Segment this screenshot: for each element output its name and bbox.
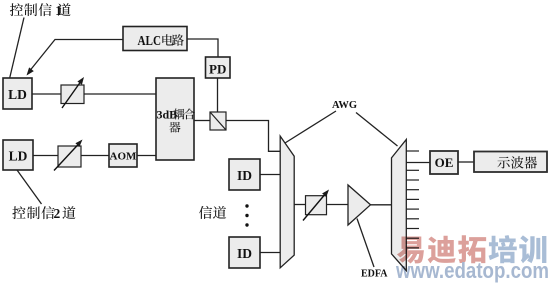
EDFA amplifier triangle <box>348 185 371 225</box>
variable attenuator VOA2 <box>54 140 83 171</box>
wire VOA1 to 3dB coupler <box>84 93 156 95</box>
photodiode PD <box>206 57 231 78</box>
label EDFA with leader <box>357 219 388 280</box>
label AWG with two leaders <box>285 100 398 146</box>
wire PD to tap splitter <box>217 78 219 112</box>
laser ID1 (channel bank top) <box>229 159 260 190</box>
svg-text:LD: LD <box>8 87 27 102</box>
svg-text:ID: ID <box>237 246 252 261</box>
wire VOA2 to AOM <box>81 155 109 157</box>
variable attenuator VOA1 <box>61 77 84 108</box>
wire AOM to 3dB coupler <box>137 155 156 157</box>
svg-text:ALC: ALC <box>138 33 162 48</box>
laser diode LD1 <box>3 78 32 109</box>
tap splitter (box with diagonal) <box>210 112 226 130</box>
label: channels (信道) <box>199 206 226 219</box>
wire OE to oscilloscope <box>458 161 474 163</box>
wire: ALC feedback to LD1 (arrow) <box>27 40 124 76</box>
laser ID2 (channel bank bottom) <box>229 237 260 268</box>
svg-text:PD: PD <box>209 62 226 77</box>
wire ID1 to AWG mux <box>260 174 280 176</box>
acousto-optic modulator AOM <box>109 144 137 167</box>
svg-text:www.edatop.com: www.edatop.com <box>395 258 549 283</box>
svg-text:OE: OE <box>435 155 454 170</box>
label: control channel 2 (控制信道2) <box>12 206 75 221</box>
wire EDFA to AWG demux <box>371 204 392 206</box>
3dB coupler box (3dB耦合器) <box>156 78 195 160</box>
label: control channel 1 (控制信道1) <box>10 3 71 18</box>
wire VOA3 to EDFA <box>327 204 349 206</box>
AWG demux output port ticks <box>406 151 419 248</box>
svg-text:EDFA: EDFA <box>361 269 388 280</box>
wire LD1 to attenuator VOA1 <box>32 93 61 95</box>
wire AWG demux port to OE <box>406 162 430 164</box>
leader line from 控制信道1 to LD1 <box>10 18 24 78</box>
vertical ellipsis between ID lasers <box>245 204 248 226</box>
wire ID2 to AWG mux <box>260 252 280 254</box>
wire tap splitter to AWG mux input <box>226 121 280 152</box>
wire LD2 to attenuator VOA2 <box>33 155 58 157</box>
wire AWG mux to attenuator VOA3 <box>294 204 305 206</box>
svg-text:ID: ID <box>237 168 252 183</box>
ALC circuit box (ALC电路) <box>123 27 187 51</box>
svg-text:AWG: AWG <box>332 100 357 111</box>
svg-text:LD: LD <box>9 149 28 164</box>
laser diode LD2 <box>3 140 33 170</box>
watermark 易迪拓培训 www.edatop.com <box>395 235 549 283</box>
svg-text:3dB: 3dB <box>157 108 178 122</box>
OE converter box <box>430 151 458 174</box>
svg-text:1: 1 <box>55 3 62 18</box>
wire ALC to PD <box>187 39 218 57</box>
AWG demultiplexer (right trapezoid) <box>392 140 407 271</box>
wire 3dB coupler to tap splitter <box>194 120 210 122</box>
leader line from LD2 to 控制信道2 <box>17 170 42 204</box>
svg-text:AOM: AOM <box>110 151 138 163</box>
variable attenuator VOA3 <box>303 190 329 221</box>
AWG multiplexer (left trapezoid) <box>280 136 294 268</box>
oscilloscope box (示波器) <box>474 152 547 173</box>
svg-text:2: 2 <box>54 206 61 221</box>
